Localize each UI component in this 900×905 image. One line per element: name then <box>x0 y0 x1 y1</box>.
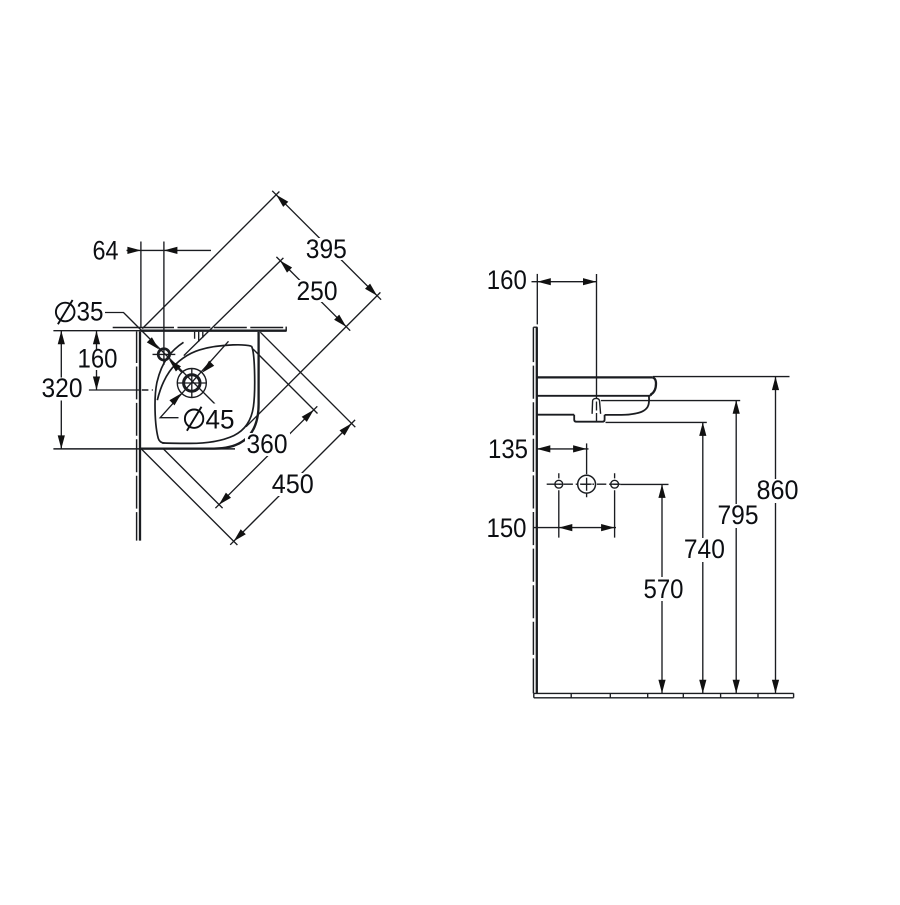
svg-text:320: 320 <box>42 373 83 403</box>
wall top thin line <box>113 327 284 329</box>
svg-text:35: 35 <box>77 296 104 326</box>
dim 570 vertical <box>661 484 663 693</box>
centre ticks <box>559 473 615 497</box>
dim line 450 <box>230 420 355 545</box>
svg-text:450: 450 <box>272 469 314 499</box>
tap hole section <box>592 398 601 413</box>
drain crosshair <box>177 368 207 397</box>
extension A from corner <box>142 192 279 329</box>
tail after dia35 lower arrow <box>177 368 181 372</box>
fixing hole right <box>611 480 619 488</box>
dim 135 line <box>537 448 589 450</box>
svg-text:740: 740 <box>684 534 725 564</box>
svg-text:64: 64 <box>93 236 119 266</box>
bowl back edge <box>157 345 251 400</box>
svg-text:570: 570 <box>644 574 684 604</box>
extension E rim top right for 450 <box>260 332 355 427</box>
basin rim front face <box>651 377 657 395</box>
svg-text:160: 160 <box>78 344 118 374</box>
arrowheads dia45 <box>169 361 214 406</box>
wall top main line with left extension <box>53 330 140 332</box>
bowl front inner edge <box>162 346 255 443</box>
dia45 dim line perpendicular <box>160 341 228 417</box>
side text labels <box>485 265 801 604</box>
svg-text:160: 160 <box>487 265 527 295</box>
dim line 250 <box>276 257 350 331</box>
faucet centre line dash-dot <box>547 483 621 485</box>
wall left main line <box>139 332 141 541</box>
vertical extension through tap hole <box>596 274 598 421</box>
dim 160 line <box>532 281 597 283</box>
dim 135 extension <box>586 443 588 474</box>
extension B for 250 <box>184 258 284 356</box>
drain outer circle <box>177 369 206 398</box>
plan text labels <box>40 234 349 499</box>
basin outer rim outline <box>141 332 259 449</box>
tap hole circle front <box>578 475 596 493</box>
side wall thin dashed line <box>532 327 534 693</box>
wall mounting tick marks <box>195 332 203 342</box>
dim line 360 <box>215 406 317 508</box>
bowl bottom lines <box>537 414 622 416</box>
dim line 395 <box>272 191 381 300</box>
dim 150 line <box>534 527 616 529</box>
svg-text:860: 860 <box>757 475 799 505</box>
bowl underside profile <box>622 396 650 415</box>
extension C front outer <box>246 292 380 426</box>
extension G leaf top tip for 360 <box>253 349 318 414</box>
extension for 740 <box>606 421 707 423</box>
dim 64 extension lines <box>141 242 164 365</box>
main diagonal with dia35 leader <box>105 313 216 405</box>
svg-text:360: 360 <box>247 429 288 459</box>
dim 320 vertical <box>60 331 62 449</box>
svg-text:250: 250 <box>297 276 338 306</box>
extension for 570 <box>620 483 668 485</box>
dim 150 extensions <box>559 490 615 537</box>
basin rim bottom line <box>537 395 651 397</box>
svg-text:150: 150 <box>487 513 527 543</box>
svg-text:45: 45 <box>206 404 235 434</box>
side wall top cap <box>533 326 537 328</box>
tap hole crosshair <box>153 353 176 355</box>
extension D corner bottom for 450 <box>142 449 238 545</box>
dim 860 vertical <box>775 377 777 694</box>
basin top rim line <box>537 376 653 378</box>
extension line bottom for 320 <box>53 448 235 450</box>
side wall main line <box>536 327 538 693</box>
svg-text:795: 795 <box>718 500 759 530</box>
basin inner back edge sweep <box>155 342 184 443</box>
extension of top line for 860 <box>653 376 790 378</box>
siphon cover <box>574 415 604 422</box>
dash-dot centre mark at wall <box>142 389 153 391</box>
dim 795 vertical <box>735 400 737 693</box>
extension for 795 <box>601 400 740 402</box>
fixing hole left <box>555 480 563 488</box>
tap hole circle dia35 <box>158 349 169 360</box>
dim 64 line and arrows <box>127 249 212 251</box>
dim 740 vertical <box>702 422 704 693</box>
extension F leaf bottom tip for 360 <box>164 449 223 508</box>
arrowheads dia35 <box>147 337 181 371</box>
dim 160 vertical plan <box>96 331 98 390</box>
wall left thin line <box>136 332 138 541</box>
floor box with joints <box>534 693 794 697</box>
svg-text:135: 135 <box>488 434 528 464</box>
svg-text:395: 395 <box>306 234 347 264</box>
drain inner ring <box>184 375 200 391</box>
extension at wall top for 160 <box>536 274 538 325</box>
